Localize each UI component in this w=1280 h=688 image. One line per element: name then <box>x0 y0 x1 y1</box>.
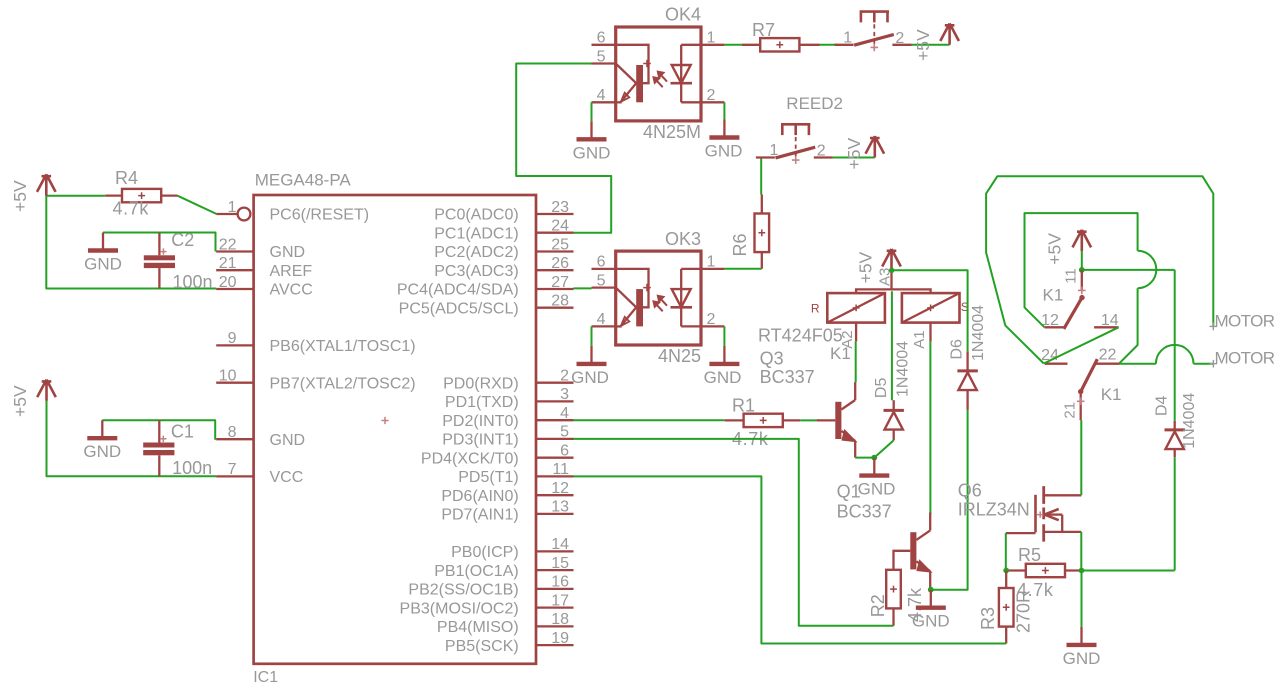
svg-text:23: 23 <box>551 199 569 216</box>
transistor Q3 BC337 <box>817 419 835 421</box>
svg-text:PD6(AIN0): PD6(AIN0) <box>441 488 518 505</box>
svg-text:D6: D6 <box>949 339 966 360</box>
svg-text:GND: GND <box>270 432 306 449</box>
IC1 pin 17 PB3(MOSI/OC2) <box>536 606 574 608</box>
svg-text:1: 1 <box>843 29 852 46</box>
IC1 pin 23 PC0(ADC0) <box>536 213 574 215</box>
resistor R4 4.7k <box>122 189 161 202</box>
capacitor C2 100n <box>158 233 160 256</box>
wire net MOTOR upper: K1 pin 24 loop to MOTOR label <box>986 176 1213 363</box>
svg-text:+5V: +5V <box>10 180 30 212</box>
wire K1 pin 21 to Q6 drain <box>1080 420 1082 495</box>
svg-text:11: 11 <box>1063 268 1080 284</box>
svg-text:GND: GND <box>84 255 122 274</box>
svg-text:2: 2 <box>707 311 716 328</box>
svg-text:2: 2 <box>707 87 716 104</box>
svg-text:GND: GND <box>705 142 743 161</box>
svg-text:1: 1 <box>707 30 716 47</box>
svg-text:MEGA48-PA: MEGA48-PA <box>255 171 352 190</box>
svg-text:5: 5 <box>597 272 606 289</box>
svg-text:100n: 100n <box>173 272 213 292</box>
supply +5V (above relay coils, net A3) <box>882 249 901 270</box>
svg-text:1N4004: 1N4004 <box>970 305 987 361</box>
svg-text:A2: A2 <box>839 330 856 348</box>
wire reed switch 1 pin 2 to +5V <box>912 44 950 46</box>
svg-text:RT424F05: RT424F05 <box>758 326 843 346</box>
svg-text:2: 2 <box>817 143 826 160</box>
diode D6 1N4004 <box>966 351 968 369</box>
svg-text:7: 7 <box>228 461 237 478</box>
svg-text:27: 27 <box>551 274 569 291</box>
svg-text:PC0(ADC0): PC0(ADC0) <box>434 207 518 224</box>
svg-text:BC337: BC337 <box>837 502 892 522</box>
svg-text:28: 28 <box>551 293 569 310</box>
svg-text:VCC: VCC <box>270 469 304 486</box>
relay K1 coil R (reset coil) <box>827 293 885 323</box>
svg-text:GND: GND <box>858 480 896 499</box>
svg-text:BC337: BC337 <box>760 367 815 387</box>
svg-text:GND: GND <box>270 244 306 261</box>
relay K1 coil pin A2 <box>855 323 857 342</box>
svg-text:MOTOR: MOTOR <box>1215 311 1275 330</box>
svg-text:PB2(SS/OC1B): PB2(SS/OC1B) <box>408 582 518 599</box>
IC1 pin 6 PD4(XCK/T0) <box>536 457 574 459</box>
svg-text:Q1: Q1 <box>837 482 861 502</box>
resistor R5 4.7k <box>1026 564 1065 577</box>
supply +5V (right of REED2) <box>866 136 885 157</box>
svg-text:R5: R5 <box>1018 545 1041 565</box>
svg-text:GND: GND <box>1063 649 1101 668</box>
resistor R6 (vertical) <box>755 214 770 253</box>
junction at Q1 emitter / D6 / ground <box>928 587 934 593</box>
IC1 pin 1 PC6(/RESET) <box>216 213 237 215</box>
wire OK4 pin 2 to ground <box>723 102 725 119</box>
svg-text:OK3: OK3 <box>665 229 701 249</box>
wire relay coil A1 to Q1 collector <box>929 341 931 514</box>
resistor R3 270R (vertical) <box>999 588 1014 627</box>
junction R5 right / Q6 source / D4 / GND <box>1079 568 1085 574</box>
svg-text:2: 2 <box>895 30 904 47</box>
wire Q3 emitter to junction <box>855 457 874 459</box>
wire OK3 pin 1 to R6 bottom <box>724 268 761 270</box>
wire junction to ground (bottom right) <box>1081 571 1083 627</box>
svg-text:17: 17 <box>551 592 569 609</box>
wire IC pin 4 PD2 to R1 <box>574 419 725 421</box>
svg-text:12: 12 <box>551 480 569 497</box>
ground GND (below OK3 pin 2) <box>723 346 725 364</box>
svg-text:R4: R4 <box>115 168 138 188</box>
wire Q6 gate to R5/R3 junction <box>1005 533 1007 570</box>
IC1 pin 21 AREF <box>216 269 253 271</box>
wire GND/C2 rail to IC pin 22 <box>103 233 216 252</box>
svg-text:1: 1 <box>707 254 716 271</box>
wire OK3 pin 4 to ground <box>591 326 593 346</box>
svg-text:R2: R2 <box>868 594 888 617</box>
svg-text:2: 2 <box>560 368 569 385</box>
diode D4 1N4004 <box>1174 270 1176 421</box>
svg-text:14: 14 <box>551 536 569 553</box>
svg-text:PD4(XCK/T0): PD4(XCK/T0) <box>421 450 519 467</box>
net label MOTOR (lower) <box>1210 360 1218 368</box>
wire OK4 pin 1 to R7 <box>724 44 741 46</box>
svg-text:4N25M: 4N25M <box>643 122 701 142</box>
net label MOTOR (upper) <box>1210 323 1218 331</box>
wire IC pin 27 PC4 to OK3 pin 5 <box>574 287 592 289</box>
transistor Q1 BC337 <box>910 532 916 569</box>
junction +5V / K1 pin 11 / D4 rail <box>1079 267 1085 273</box>
svg-text:PD5(T1): PD5(T1) <box>458 469 518 486</box>
svg-text:Q3: Q3 <box>760 349 784 369</box>
svg-text:PB0(ICP): PB0(ICP) <box>451 544 519 561</box>
svg-text:18: 18 <box>551 611 569 628</box>
ground GND (Q3 emitter) <box>873 458 875 476</box>
svg-text:+5V: +5V <box>856 251 876 283</box>
supply +5V (upper left) <box>37 174 56 195</box>
svg-text:6: 6 <box>597 254 606 271</box>
IC1 pin 13 PD7(AIN1) <box>536 513 574 515</box>
svg-text:PD0(RXD): PD0(RXD) <box>443 375 519 392</box>
svg-text:REED2: REED2 <box>786 94 843 113</box>
svg-text:4N25: 4N25 <box>658 346 701 366</box>
svg-text:C1: C1 <box>171 421 194 441</box>
IC1 pin 11 PD5(T1) <box>536 475 574 477</box>
svg-text:+5V: +5V <box>913 29 933 61</box>
svg-text:IC1: IC1 <box>253 669 278 686</box>
wire +5V to R4 and AVCC rail (net N$1) <box>46 196 216 289</box>
wire REED2 pin 1 down to R6 <box>761 158 774 195</box>
wire +5V to IC pin 7 VCC <box>47 401 217 476</box>
svg-text:19: 19 <box>551 630 569 647</box>
wire R1 to Q3 base <box>800 419 820 421</box>
wire net MOTOR lower: K1 pin 22 to MOTOR label (hop over D4 wire) <box>1120 363 1156 365</box>
IC1 pin 24 PC1(ADC1) <box>536 232 574 234</box>
relay K1 coil S (set coil) <box>902 293 960 323</box>
IC1 pin 22 GND <box>216 250 253 252</box>
svg-text:8: 8 <box>228 424 237 441</box>
svg-text:A1: A1 <box>911 330 928 348</box>
svg-text:4: 4 <box>560 405 569 422</box>
supply +5V (lower left) <box>37 380 56 401</box>
IC1 pin 9 PB6(XTAL1/TOSC1) <box>216 344 253 346</box>
wire +5V to junction <box>1081 251 1083 270</box>
IC1 pin 15 PB1(OC1A) <box>536 569 574 571</box>
svg-text:R6: R6 <box>730 233 750 256</box>
relay contact K1 pins 21/22/24 (lower) <box>1045 363 1068 365</box>
svg-text:6: 6 <box>560 443 569 460</box>
svg-text:22: 22 <box>1099 346 1117 363</box>
reed switch (top, unnamed) pins 1-2 <box>835 44 854 46</box>
ground GND (Q1 emitter) <box>930 590 932 608</box>
ground GND (bottom right) <box>1080 627 1082 645</box>
wire D5 anode to Q3 emitter junction <box>874 440 893 457</box>
wire +5V junction to D4 (rail crossing with hop) <box>1082 269 1175 271</box>
Q1 base lead to R2 <box>894 551 911 570</box>
wire relay coil A2 to Q3 collector <box>855 341 857 382</box>
supply +5V (above K1 contact 11) <box>1073 230 1092 251</box>
svg-text:4: 4 <box>597 87 606 104</box>
svg-text:4: 4 <box>597 311 606 328</box>
svg-text:+5V: +5V <box>10 385 30 417</box>
svg-text:IRLZ34N: IRLZ34N <box>958 500 1030 520</box>
junction R5 left / R3 / gate <box>1003 568 1009 574</box>
svg-text:3: 3 <box>560 386 569 403</box>
ground GND (below OK3 pin 4) <box>590 346 592 364</box>
svg-text:AVCC: AVCC <box>270 282 313 299</box>
svg-text:1N4004: 1N4004 <box>1181 393 1198 449</box>
svg-text:25: 25 <box>551 236 569 253</box>
svg-text:GND: GND <box>571 368 609 387</box>
wire R4 to IC pin 1 /RESET (diagonal) <box>178 196 217 214</box>
wire IC pin 5 PD3 to R2 bottom (bus) <box>574 439 894 626</box>
svg-text:K1: K1 <box>1043 286 1064 305</box>
svg-text:PB1(OC1A): PB1(OC1A) <box>434 563 518 580</box>
svg-text:PB4(MISO): PB4(MISO) <box>437 619 519 636</box>
svg-text:R: R <box>811 302 820 316</box>
svg-text:6: 6 <box>597 30 606 47</box>
IC1 pin 12 PD6(AIN0) <box>536 494 574 496</box>
svg-text:D4: D4 <box>1154 395 1171 416</box>
svg-text:1: 1 <box>228 199 237 216</box>
capacitor C1 100n <box>158 420 160 442</box>
svg-text:Q6: Q6 <box>958 480 982 500</box>
svg-text:GND: GND <box>704 368 742 387</box>
svg-text:21: 21 <box>219 255 237 272</box>
svg-text:PC6(/RESET): PC6(/RESET) <box>270 207 370 224</box>
svg-text:PD1(TXD): PD1(TXD) <box>445 394 519 411</box>
svg-text:D5: D5 <box>873 378 890 399</box>
IC1 pin 5 PD3(INT1) <box>536 438 574 440</box>
wire D6 anode down to Q1 emitter junction <box>931 410 968 590</box>
wire D4 anode down to R5 junction rail <box>1174 457 1176 570</box>
svg-text:14: 14 <box>1101 312 1119 329</box>
reed switch REED2 pins 1-2 <box>756 156 775 158</box>
IC1 pin 20 AVCC <box>216 288 253 290</box>
IC1 pin 10 PB7(XTAL2/TOSC2) <box>216 382 253 384</box>
optocoupler OK4 4N25M <box>616 27 701 121</box>
IC1 pin 3 PD1(TXD) <box>536 400 574 402</box>
svg-text:PB5(SCK): PB5(SCK) <box>445 638 519 655</box>
wire GND/C1 rail to IC pin 8 <box>102 420 216 439</box>
resistor R7 <box>760 38 799 51</box>
IC1 pin 26 PC3(ADC3) <box>536 269 574 271</box>
IC1 pin 16 PB2(SS/OC1B) <box>536 588 574 590</box>
svg-text:AREF: AREF <box>270 263 313 280</box>
svg-text:K1: K1 <box>1101 385 1122 404</box>
svg-text:PB3(MOSI/OC2): PB3(MOSI/OC2) <box>400 600 519 617</box>
IC1 pin 4 PD2(INT0) <box>536 419 574 421</box>
relay K1 coil pin A1 <box>929 323 931 342</box>
svg-text:GND: GND <box>573 143 611 162</box>
resistor R1 4.7k <box>744 414 783 427</box>
svg-text:PC4(ADC4/SDA): PC4(ADC4/SDA) <box>397 282 519 299</box>
wire OK3 pin 2 to ground <box>723 326 725 346</box>
ground GND (lower left) <box>101 420 103 438</box>
svg-text:+5V: +5V <box>1045 233 1065 265</box>
svg-text:PD7(AIN1): PD7(AIN1) <box>441 507 518 524</box>
svg-text:C2: C2 <box>171 230 194 250</box>
wire IC pin 11 PD5 to R3 bottom (bus) <box>574 476 1007 643</box>
MOSFET Q6 IRLZ34N <box>1034 495 1037 533</box>
junction at Q3 emitter / D5 / ground <box>871 455 877 461</box>
IC1 pin 7 VCC <box>216 475 253 477</box>
svg-text:10: 10 <box>219 368 237 385</box>
supply +5V (top right of R7 switch) <box>940 24 959 45</box>
svg-text:GND: GND <box>83 442 121 461</box>
IC1 pin 28 PC5(ADC5/SCL) <box>536 307 574 309</box>
wire K1 pin 12 to pin 22 (inner loop with hop arc) <box>1025 213 1138 327</box>
svg-text:PB6(XTAL1/TOSC1): PB6(XTAL1/TOSC1) <box>270 338 416 355</box>
relay contact K1 pins 11/12/14 (upper) <box>1081 270 1083 291</box>
svg-text:22: 22 <box>219 236 237 253</box>
wire R5 right junction to D4 bottom <box>1082 570 1175 572</box>
svg-text:270R: 270R <box>1014 590 1034 633</box>
IC1 pin 8 GND <box>216 438 253 440</box>
svg-text:R3: R3 <box>978 607 998 630</box>
svg-text:GND: GND <box>912 612 950 631</box>
wire K1 pin 24 to pin 14 (diagonal) <box>1044 327 1119 363</box>
svg-text:16: 16 <box>551 574 569 591</box>
IC1 pin 19 PB5(SCK) <box>536 644 574 646</box>
svg-text:R1: R1 <box>732 396 755 416</box>
svg-text:5: 5 <box>597 48 606 65</box>
ground GND (upper left) <box>102 233 104 251</box>
IC1 pin 18 PB4(MISO) <box>536 625 574 627</box>
svg-text:4.7k: 4.7k <box>113 199 150 219</box>
svg-text:PD3(INT1): PD3(INT1) <box>442 432 518 449</box>
svg-text:PB7(XTAL2/TOSC2): PB7(XTAL2/TOSC2) <box>270 375 416 392</box>
svg-text:PC2(ADC2): PC2(ADC2) <box>434 244 518 261</box>
IC IC1 MEGA48-PA (ATmega48) <box>254 195 536 664</box>
svg-text:100n: 100n <box>172 458 212 478</box>
svg-text:13: 13 <box>551 499 569 516</box>
svg-text:+5V: +5V <box>844 138 864 170</box>
svg-text:1N4004: 1N4004 <box>895 341 912 397</box>
svg-text:5: 5 <box>560 424 569 441</box>
svg-text:9: 9 <box>228 330 237 347</box>
wire REED2 pin 2 to +5V <box>833 157 875 159</box>
svg-text:15: 15 <box>551 555 569 572</box>
IC1 pin 14 PB0(ICP) <box>536 550 574 552</box>
diode D5 1N4004 <box>893 400 895 409</box>
wire IC pin 24 PC1 to OK4 pin 5 (dogleg) <box>516 64 611 233</box>
svg-text:OK4: OK4 <box>665 5 701 25</box>
wire OK4 pin 4 to ground <box>591 102 593 121</box>
wire R7 to reed switch 1 <box>820 44 838 46</box>
relay K1 coil link and pin A3 <box>856 289 931 293</box>
ground GND (below OK4 pin 4) <box>590 121 592 139</box>
svg-text:PC3(ADC3): PC3(ADC3) <box>434 263 518 280</box>
svg-text:PD2(INT0): PD2(INT0) <box>442 413 518 430</box>
wire Q6 source to R5 junction <box>1080 532 1082 571</box>
IC1 pin 27 PC4(ADC4/SDA) <box>536 288 574 290</box>
svg-text:PC5(ADC5/SCL): PC5(ADC5/SCL) <box>399 300 519 317</box>
IC1 pin 2 PD0(RXD) <box>536 382 574 384</box>
ground GND (below OK4 pin 2) <box>723 120 725 138</box>
IC1 pin 25 PC2(ADC2) <box>536 250 574 252</box>
svg-text:26: 26 <box>551 255 569 272</box>
svg-text:R7: R7 <box>752 20 775 40</box>
svg-text:MOTOR: MOTOR <box>1215 348 1275 367</box>
optocoupler OK3 4N25 <box>616 251 701 345</box>
svg-text:21: 21 <box>1062 402 1079 419</box>
svg-text:1: 1 <box>769 142 778 159</box>
svg-text:11: 11 <box>552 461 569 478</box>
resistor R2 4.7k (vertical) <box>886 570 901 609</box>
svg-text:20: 20 <box>219 274 237 291</box>
svg-text:24: 24 <box>551 218 569 235</box>
wire +5V rail to D5 and D6 cathodes <box>891 291 893 400</box>
svg-text:PC1(ADC1): PC1(ADC1) <box>434 225 518 242</box>
